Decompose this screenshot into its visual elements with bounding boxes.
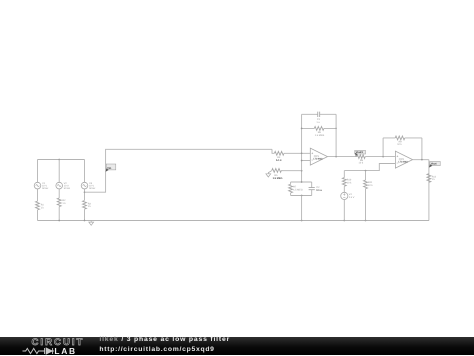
svg-text:10 k: 10 k (359, 162, 364, 165)
wire RC loop top (291, 181, 312, 183)
svg-text:10 k: 10 k (397, 143, 402, 146)
node fb junctions (301, 128, 303, 130)
wire RC loop to rail (301, 196, 303, 221)
voltage source V2 (56, 182, 71, 190)
wire output down (428, 160, 430, 221)
wire R4 to op-amp (284, 152, 310, 154)
ground R5 (266, 172, 271, 177)
svg-text:1 k: 1 k (62, 202, 66, 205)
svg-text:50 Hz: 50 Hz (64, 187, 71, 190)
svg-text:5.1 k: 5.1 k (276, 159, 282, 162)
resistor R2 (57, 198, 66, 207)
svg-text:1.5 MEG: 1.5 MEG (315, 134, 325, 137)
wire fb2 right vertical (421, 138, 423, 160)
capacitor C1 feedback (302, 112, 337, 124)
resistor R5 (268, 169, 301, 180)
svg-text:1 k: 1 k (432, 178, 436, 181)
wire branch V1 (37, 160, 39, 221)
svg-text:LT1490A: LT1490A (313, 158, 323, 161)
node crossings on inverting line (301, 152, 303, 154)
resistor R6 feedback (302, 126, 337, 136)
svg-text:10 k: 10 k (368, 184, 373, 187)
wire branch V2 (58, 160, 60, 221)
wire top rail (38, 159, 85, 161)
svg-text:1 k: 1 k (88, 205, 92, 208)
node flag Vout (429, 161, 440, 167)
resistor R10 (342, 171, 352, 193)
title text (99, 336, 230, 343)
svg-text:1.5 MEG: 1.5 MEG (293, 188, 303, 191)
svg-text:0.1 u: 0.1 u (316, 189, 322, 192)
svg-text:50 Hz: 50 Hz (89, 187, 96, 190)
svg-text:1 k: 1 k (41, 206, 45, 209)
svg-text:50 Hz: 50 Hz (42, 187, 49, 190)
voltage source V1 (34, 182, 49, 190)
node top rail junction (58, 159, 60, 161)
voltage source V4 (341, 192, 355, 220)
node OP2 out junction (421, 159, 423, 161)
op-amp OP2 (395, 151, 412, 168)
resistor R1 (36, 201, 45, 210)
op-amp OP1 (310, 148, 327, 165)
svg-text:LT1490A: LT1490A (398, 161, 408, 164)
node RC loop junctions (301, 181, 303, 183)
wire RC loop bottom (291, 195, 312, 197)
voltage source V3 (81, 182, 96, 190)
resistor R9 feedback (383, 136, 422, 146)
wire R8 to OP2 (365, 156, 395, 158)
CircuitLab logo (32, 337, 85, 348)
node OP1 fb junction (335, 156, 337, 158)
svg-text:2.5 V: 2.5 V (349, 196, 355, 199)
resistor R8 (357, 155, 365, 165)
wire input jog (272, 149, 274, 153)
wire fb right vertical (335, 114, 337, 156)
capacitor C2 (309, 182, 323, 196)
wire inverting node vertical (301, 114, 303, 182)
wire branch V3 (84, 160, 86, 221)
node OP2 fb junction (382, 156, 384, 158)
wire OP2 plus input step (344, 164, 395, 171)
node flag Va (106, 164, 116, 172)
node bottom junctions (58, 220, 60, 222)
resistor R3 (83, 201, 92, 210)
ground (89, 221, 94, 226)
url text (99, 346, 214, 353)
svg-text:Vin: Vin (107, 167, 111, 170)
node flag Vout1 (355, 150, 366, 156)
wire OP1 minus stub (302, 160, 311, 162)
node step junction (365, 170, 367, 172)
resistor R11 (364, 171, 374, 221)
svg-text:OP2: OP2 (399, 158, 405, 161)
wire V3 tap to filter input (85, 149, 273, 192)
resistor R7 (289, 182, 303, 196)
svg-text:1 u: 1 u (316, 121, 320, 124)
svg-text:10 k: 10 k (347, 181, 352, 184)
svg-text:OP1: OP1 (314, 155, 320, 158)
wire fb2 left vertical (382, 138, 384, 157)
wire OP2 output (413, 159, 429, 161)
svg-text:1.5 MEG: 1.5 MEG (273, 177, 283, 180)
svg-text:Vout1: Vout1 (356, 151, 364, 154)
svg-text:Vout: Vout (431, 163, 437, 166)
resistor R4 (274, 151, 284, 161)
resistor R12 (427, 174, 437, 183)
wire bottom rail (38, 220, 430, 222)
wire OP1 output (328, 156, 358, 158)
node V3 tap junction (84, 191, 86, 193)
